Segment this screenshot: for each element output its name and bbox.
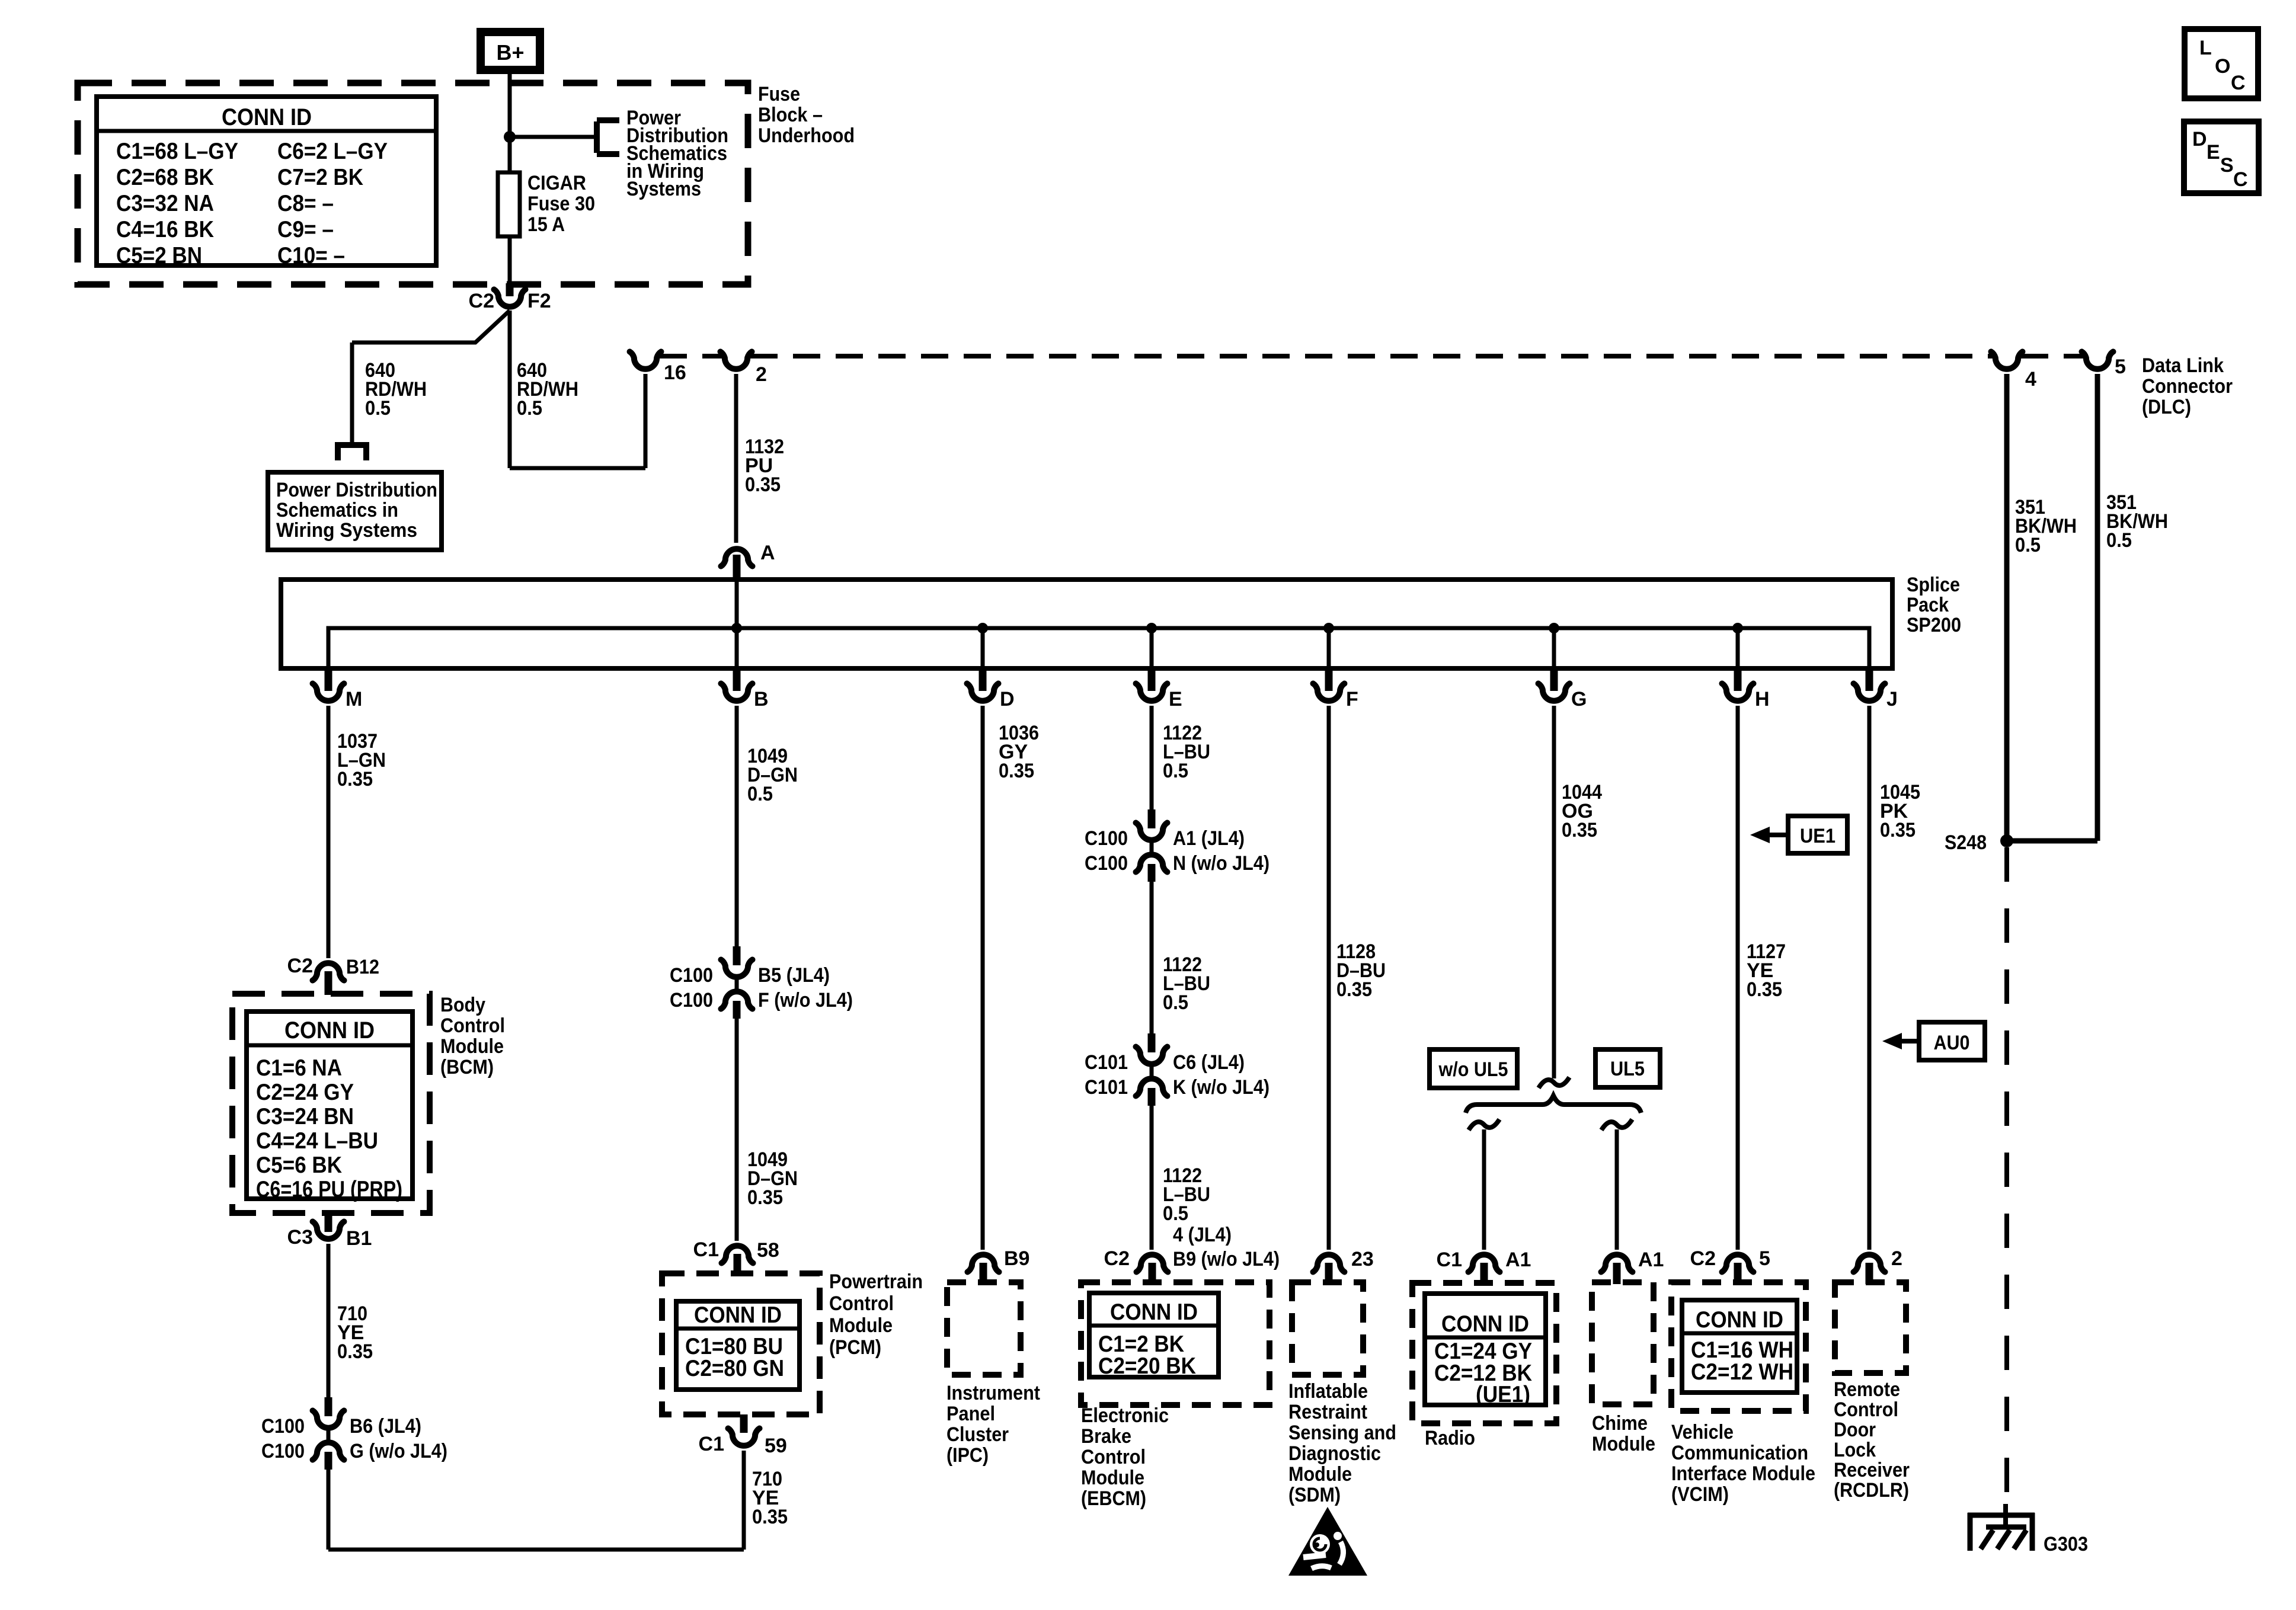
svg-text:C101: C101 [1085,1076,1128,1099]
svg-text:UE1: UE1 [1800,825,1835,847]
svg-text:0.5: 0.5 [747,783,773,805]
svg-text:A1: A1 [1638,1249,1664,1271]
svg-text:2: 2 [756,363,767,386]
svg-text:Module: Module [1081,1467,1144,1489]
svg-text:C3: C3 [287,1226,313,1249]
svg-text:Cluster: Cluster [946,1423,1009,1446]
svg-text:Module: Module [829,1314,893,1337]
svg-text:Wiring Systems: Wiring Systems [276,519,417,542]
svg-text:Control: Control [1834,1398,1898,1421]
svg-text:CONN ID: CONN ID [1441,1311,1529,1337]
svg-text:A: A [760,542,775,564]
svg-text:Fuse 30: Fuse 30 [527,193,595,215]
svg-text:Restraint: Restraint [1288,1401,1367,1423]
svg-text:B9: B9 [1004,1247,1029,1270]
svg-text:Body: Body [440,994,485,1016]
svg-text:C: C [2233,168,2248,191]
svg-text:C2: C2 [469,290,494,312]
svg-text:Electronic: Electronic [1081,1404,1169,1427]
svg-text:C1: C1 [693,1238,719,1261]
svg-text:(VCIM): (VCIM) [1671,1483,1729,1506]
svg-text:C2: C2 [287,955,313,977]
svg-text:Module: Module [1288,1463,1352,1486]
svg-text:(EBCM): (EBCM) [1081,1487,1146,1510]
svg-text:B1: B1 [346,1227,372,1250]
svg-text:Systems: Systems [626,178,701,200]
svg-text:B+: B+ [496,40,524,65]
svg-text:D: D [2192,128,2207,151]
svg-text:Control: Control [829,1292,894,1315]
svg-text:B12: B12 [346,956,379,978]
svg-text:C100: C100 [670,964,713,987]
svg-text:0.35: 0.35 [337,1340,373,1363]
svg-text:59: 59 [765,1435,787,1457]
svg-text:C10= –: C10= – [277,243,345,268]
svg-text:(IPC): (IPC) [946,1444,989,1467]
svg-text:(DLC): (DLC) [2142,396,2191,418]
svg-text:Power Distribution: Power Distribution [276,479,437,501]
svg-text:Module: Module [1592,1433,1655,1455]
svg-text:H: H [1755,688,1770,710]
svg-text:Pack: Pack [1907,594,1949,616]
svg-text:0.35: 0.35 [999,760,1034,782]
svg-text:0.5: 0.5 [1163,760,1188,782]
svg-text:C3=32 NA: C3=32 NA [116,191,214,216]
svg-text:D: D [1000,688,1015,710]
svg-text:(PCM): (PCM) [829,1336,881,1359]
svg-text:C7=2 BK: C7=2 BK [277,165,363,190]
svg-text:G: G [1571,688,1587,710]
svg-text:C2: C2 [1104,1247,1130,1270]
svg-text:Fuse: Fuse [758,83,800,105]
svg-text:Door: Door [1834,1419,1876,1441]
svg-text:58: 58 [757,1239,779,1262]
svg-text:16: 16 [664,361,686,384]
svg-text:(BCM): (BCM) [440,1056,494,1078]
svg-text:Communication: Communication [1671,1442,1808,1464]
svg-text:UL5: UL5 [1610,1058,1645,1080]
svg-text:Module: Module [440,1035,504,1058]
svg-text:Radio: Radio [1425,1427,1475,1449]
svg-text:0.35: 0.35 [752,1506,788,1528]
svg-text:Lock: Lock [1834,1439,1876,1461]
svg-text:0.35: 0.35 [1747,978,1782,1001]
svg-text:Remote: Remote [1834,1378,1900,1401]
svg-text:(SDM): (SDM) [1288,1484,1341,1506]
svg-text:O: O [2215,55,2230,78]
svg-text:0.5: 0.5 [2106,529,2132,552]
svg-text:C2=20 BK: C2=20 BK [1098,1353,1196,1379]
svg-text:K (w/o JL4): K (w/o JL4) [1173,1076,1269,1099]
svg-text:Control: Control [1081,1446,1146,1468]
svg-text:CONN ID: CONN ID [694,1302,782,1328]
svg-text:4: 4 [2025,368,2036,391]
svg-text:Interface Module: Interface Module [1671,1462,1815,1485]
svg-text:C1=6 NA: C1=6 NA [256,1055,342,1081]
svg-text:Panel: Panel [946,1403,995,1425]
svg-text:G303: G303 [2044,1533,2088,1555]
svg-text:0.35: 0.35 [747,1186,783,1209]
svg-text:C5=6 BK: C5=6 BK [256,1153,342,1178]
svg-text:C5=2 BN: C5=2 BN [116,243,202,268]
svg-text:CONN ID: CONN ID [1110,1299,1198,1325]
svg-text:5: 5 [1759,1247,1770,1270]
svg-text:M: M [346,688,362,710]
svg-text:C100: C100 [670,989,713,1012]
svg-text:F: F [1346,688,1358,710]
svg-text:0.5: 0.5 [2015,534,2041,556]
svg-text:Schematics in: Schematics in [276,499,398,521]
svg-text:C2: C2 [1690,1247,1716,1270]
svg-text:N (w/o JL4): N (w/o JL4) [1173,852,1269,875]
svg-text:C1: C1 [1437,1249,1462,1271]
svg-text:0.35: 0.35 [745,473,781,496]
svg-text:23: 23 [1351,1248,1374,1270]
svg-text:C6=16 PU (PRP): C6=16 PU (PRP) [256,1177,402,1202]
svg-text:Sensing and: Sensing and [1288,1422,1396,1444]
svg-text:Connector: Connector [2142,375,2233,398]
svg-text:0.35: 0.35 [337,768,373,790]
svg-text:B5 (JL4): B5 (JL4) [758,964,830,987]
svg-text:C100: C100 [1085,852,1128,875]
svg-text:C2=80 GN: C2=80 GN [685,1356,784,1381]
svg-text:C8= –: C8= – [277,191,334,216]
svg-text:F (w/o JL4): F (w/o JL4) [758,989,853,1012]
svg-text:C2=24 GY: C2=24 GY [256,1080,354,1105]
svg-text:4 (JL4): 4 (JL4) [1173,1224,1232,1246]
svg-text:Powertrain: Powertrain [829,1270,923,1293]
svg-text:B9 (w/o JL4): B9 (w/o JL4) [1173,1248,1280,1270]
svg-text:C2=12 WH: C2=12 WH [1691,1359,1793,1385]
svg-text:S: S [2220,154,2234,177]
svg-text:C9= –: C9= – [277,217,334,242]
svg-text:0.5: 0.5 [1163,1202,1188,1225]
svg-text:Block –: Block – [758,104,823,126]
svg-text:A1 (JL4): A1 (JL4) [1173,827,1245,850]
svg-text:Underhood: Underhood [758,124,855,147]
svg-text:Splice: Splice [1907,574,1960,596]
svg-text:C100: C100 [261,1415,305,1438]
svg-text:C100: C100 [261,1440,305,1462]
svg-text:Diagnostic: Diagnostic [1288,1442,1381,1465]
svg-text:C6=2 L–GY: C6=2 L–GY [277,139,388,164]
svg-text:0.35: 0.35 [1336,978,1372,1001]
svg-text:A1: A1 [1505,1249,1531,1271]
svg-text:E: E [2207,141,2220,164]
svg-text:B: B [754,688,769,710]
svg-text:C: C [2231,72,2246,94]
svg-text:0.5: 0.5 [1163,991,1188,1014]
svg-text:F2: F2 [527,290,551,312]
svg-text:2: 2 [1891,1247,1902,1270]
svg-text:CONN ID: CONN ID [1696,1307,1783,1333]
svg-text:Chime: Chime [1592,1412,1648,1435]
svg-text:0.35: 0.35 [1880,819,1916,841]
svg-text:C2=68 BK: C2=68 BK [116,165,214,190]
svg-text:0.5: 0.5 [365,397,391,420]
svg-text:(UE1): (UE1) [1476,1382,1530,1407]
svg-text:Vehicle: Vehicle [1671,1421,1734,1443]
svg-text:C101: C101 [1085,1051,1128,1074]
svg-text:G (w/o JL4): G (w/o JL4) [350,1440,447,1462]
svg-text:C4=16 BK: C4=16 BK [116,217,214,242]
svg-text:SP200: SP200 [1907,614,1961,636]
svg-text:Control: Control [440,1014,505,1037]
svg-text:J: J [1886,688,1898,710]
svg-text:w/o UL5: w/o UL5 [1438,1058,1508,1081]
svg-text:C1: C1 [699,1433,724,1455]
svg-text:Brake: Brake [1081,1425,1131,1448]
svg-text:CONN ID: CONN ID [284,1017,375,1044]
svg-text:E: E [1169,688,1182,710]
svg-text:0.35: 0.35 [1562,819,1597,841]
svg-text:Receiver: Receiver [1834,1459,1910,1481]
svg-text:Inflatable: Inflatable [1288,1380,1368,1403]
svg-text:15 A: 15 A [527,213,565,236]
svg-text:C3=24 BN: C3=24 BN [256,1104,354,1129]
svg-text:Instrument: Instrument [946,1382,1040,1404]
svg-text:C4=24 L–BU: C4=24 L–BU [256,1128,378,1154]
svg-text:C100: C100 [1085,827,1128,850]
svg-text:S248: S248 [1945,831,1987,854]
svg-text:CONN ID: CONN ID [222,104,312,130]
svg-text:(RCDLR): (RCDLR) [1834,1479,1909,1502]
svg-text:L: L [2199,37,2212,59]
svg-text:CIGAR: CIGAR [527,172,586,194]
svg-text:C1=68 L–GY: C1=68 L–GY [116,139,238,164]
svg-text:C6 (JL4): C6 (JL4) [1173,1051,1245,1074]
svg-text:Data Link: Data Link [2142,354,2224,377]
svg-text:AU0: AU0 [1934,1032,1970,1054]
svg-text:0.5: 0.5 [517,397,542,420]
svg-text:5: 5 [2115,356,2126,378]
svg-text:B6 (JL4): B6 (JL4) [350,1415,421,1438]
